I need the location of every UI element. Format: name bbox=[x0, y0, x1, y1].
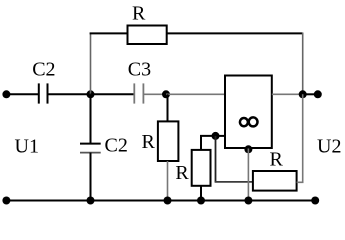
resistor R (vertical, left) bbox=[158, 121, 179, 161]
svg-text:C3: C3 bbox=[128, 58, 151, 80]
node B junction bbox=[162, 90, 170, 98]
wire node C to op-amp inverting input bbox=[216, 135, 226, 137]
wire op-amp ground pin to bottom rail bbox=[247, 149, 249, 201]
capacitor C2 (shunt, vertical) bbox=[80, 144, 101, 153]
wire input to C2 bbox=[6, 93, 38, 95]
svg-text:R: R bbox=[270, 149, 284, 171]
resistor R (vertical, middle) bbox=[192, 150, 211, 186]
wire node B down to R vertical left bbox=[167, 94, 169, 121]
svg-text:R: R bbox=[132, 3, 146, 25]
wire divider node to R vertical middle bbox=[201, 136, 216, 150]
terminal input bottom (left) bbox=[2, 197, 10, 205]
wire corner right to R horizontal bbox=[215, 181, 253, 183]
wire R vertical middle to bottom rail bbox=[200, 186, 202, 201]
terminal input top (left) bbox=[2, 90, 10, 98]
svg-text:U1: U1 bbox=[15, 136, 39, 158]
wire right corner down to output node bbox=[302, 33, 304, 95]
wire node B to op-amp noninverting input bbox=[166, 93, 225, 95]
resistor R (top feedback) bbox=[128, 26, 167, 45]
node A junction bbox=[87, 90, 95, 98]
op-amp ground pin junction bbox=[244, 145, 252, 153]
wire top branch left to R bbox=[90, 32, 128, 34]
wire node A up to top branch bbox=[90, 33, 92, 94]
bottom rail wire bbox=[6, 200, 315, 202]
svg-text:C2: C2 bbox=[105, 135, 128, 157]
svg-text:R: R bbox=[142, 131, 156, 153]
wire top branch R to right corner bbox=[167, 32, 303, 34]
wire C2 shunt to bottom rail bbox=[90, 153, 92, 201]
junction R vertical middle at rail bbox=[197, 197, 205, 205]
wire R horizontal to output branch bbox=[297, 94, 303, 182]
wire node C down to corner bbox=[215, 136, 217, 182]
terminal output top (right) bbox=[314, 90, 322, 98]
op-amp infinity gain symbol bbox=[240, 117, 258, 126]
wire op-amp output to output node bbox=[272, 93, 303, 95]
svg-text:C2: C2 bbox=[32, 58, 55, 80]
resistor R (horizontal, feedback bottom) bbox=[253, 171, 297, 191]
wire node A to C3 bbox=[91, 93, 135, 95]
capacitor C3 (series, horizontal) bbox=[134, 83, 143, 103]
node C junction (inverting input divider) bbox=[212, 132, 220, 140]
junction C2 shunt at rail bbox=[87, 197, 95, 205]
terminal output bottom (right) bbox=[311, 197, 319, 205]
wire C2 to node A bbox=[48, 93, 91, 95]
capacitor C2 (series, horizontal) bbox=[39, 83, 48, 103]
wire output node to terminal bbox=[303, 93, 318, 95]
wire R vertical left to bottom rail bbox=[167, 161, 169, 201]
wire C3 to node B bbox=[143, 93, 166, 95]
svg-text:R: R bbox=[175, 162, 189, 184]
junction R vertical left at rail bbox=[164, 197, 172, 205]
svg-text:U2: U2 bbox=[317, 136, 341, 158]
junction op-amp ground at rail bbox=[244, 197, 252, 205]
output node junction bbox=[299, 90, 307, 98]
wire node A down to C2 shunt bbox=[90, 94, 92, 143]
op-amp U1 (ideal, gain infinity) bbox=[225, 76, 272, 149]
